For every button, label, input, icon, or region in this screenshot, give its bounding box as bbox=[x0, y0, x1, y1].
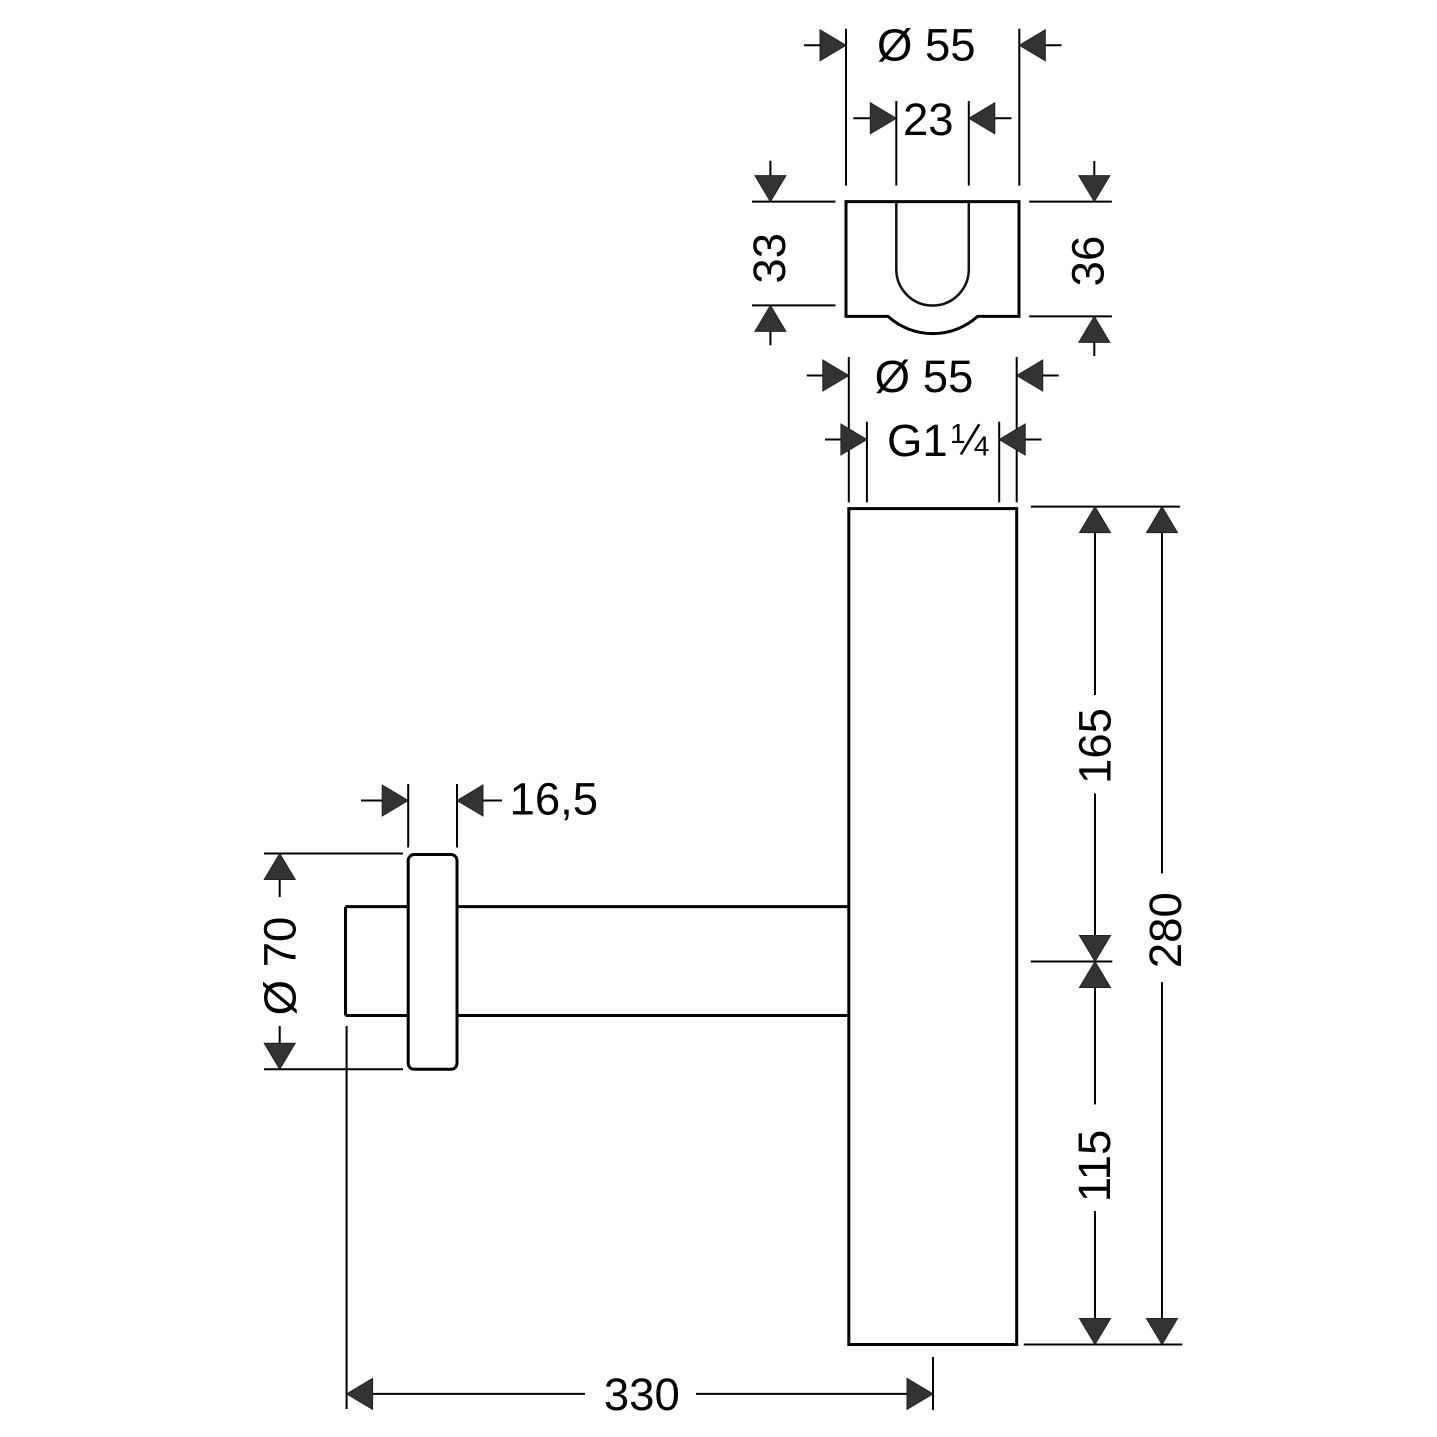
cup (wall bracket) outline bbox=[846, 202, 1019, 334]
dimension 115 bbox=[1069, 962, 1120, 1345]
inlet pipe bottom edge bbox=[346, 1014, 849, 1017]
svg-text:115: 115 bbox=[1069, 1130, 1120, 1203]
right extension line bottom bbox=[1024, 1344, 1183, 1346]
right extension line top bbox=[1031, 506, 1180, 508]
wall flange bbox=[408, 855, 457, 1070]
svg-text:1: 1 bbox=[950, 418, 966, 449]
dimension 280 bbox=[1140, 507, 1191, 1345]
dimension 33 left bbox=[744, 161, 836, 346]
dimension 23 bbox=[853, 94, 1011, 186]
dimension 36 right bbox=[1029, 161, 1113, 356]
svg-text:G1: G1 bbox=[887, 415, 948, 466]
siphon body (vertical cylinder) bbox=[849, 509, 1017, 1345]
dimension Ø55 top bbox=[804, 20, 1062, 186]
svg-text:16,5: 16,5 bbox=[510, 774, 599, 825]
svg-text:4: 4 bbox=[974, 430, 990, 461]
svg-text:36: 36 bbox=[1063, 236, 1114, 287]
svg-text:165: 165 bbox=[1070, 708, 1121, 784]
svg-text:Ø 55: Ø 55 bbox=[877, 20, 976, 71]
dimension Ø70 bbox=[254, 854, 403, 1070]
inlet pipe left cap bbox=[344, 907, 347, 1016]
dimension G 1 1/4 bbox=[825, 415, 1042, 503]
svg-text:330: 330 bbox=[604, 1369, 680, 1420]
svg-text:33: 33 bbox=[744, 233, 795, 284]
dimension 330 bbox=[347, 1026, 933, 1420]
svg-text:280: 280 bbox=[1140, 892, 1191, 968]
svg-text:Ø 70: Ø 70 bbox=[254, 917, 305, 1016]
svg-text:Ø 55: Ø 55 bbox=[875, 351, 974, 402]
dimension 165 bbox=[1070, 507, 1121, 962]
svg-text:23: 23 bbox=[903, 94, 954, 145]
right extension line middle (pipe axis) bbox=[1031, 961, 1113, 963]
inlet pipe top edge bbox=[346, 905, 849, 908]
cup U-shaped recess bbox=[896, 202, 969, 306]
dimension 16,5 bbox=[361, 774, 598, 848]
dimension Ø55 bottom bbox=[807, 351, 1059, 502]
